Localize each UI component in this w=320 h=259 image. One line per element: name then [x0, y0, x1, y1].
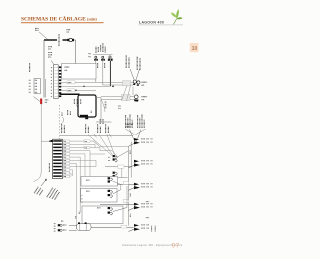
- P1 wire: [69, 224, 77, 226]
- bracket wire over breakers: [93, 54, 113, 56]
- control module U1 black rounded box: [78, 95, 96, 119]
- page title: SCHEMAS DE CABLAGE (suite): [21, 14, 104, 23]
- battery positive bus left segment: [44, 39, 57, 41]
- gauge feed diagonal wires: [130, 69, 134, 80]
- diagonals to loads group 1: [130, 130, 135, 142]
- harness curve: [63, 117, 64, 123]
- relay enclosure E3: [82, 206, 127, 224]
- main cable down to labels: [34, 104, 42, 181]
- leader to module: [76, 105, 81, 112]
- G1 labels: [142, 81, 148, 83]
- bottom bus to loads: [91, 226, 134, 228]
- wire label box B: [67, 89, 75, 92]
- battery positive bus right segment: [63, 39, 68, 41]
- inline connector capsule: [77, 222, 92, 230]
- CB2 drop wire: [102, 61, 104, 85]
- J2 row labels: [29, 80, 31, 92]
- cable label block mid-left: [48, 52, 52, 54]
- load 1 labels: [141, 138, 145, 140]
- left connector block J2: [34, 79, 41, 94]
- link wire G1 G2: [132, 87, 134, 96]
- CB3 drop wire thick: [109, 61, 111, 87]
- left margin cable label: [29, 63, 31, 72]
- junction dot: [112, 86, 114, 88]
- riser tick label: [129, 151, 131, 155]
- right label column mid bottom: [146, 201, 149, 203]
- relay enclosure E2: [81, 189, 121, 203]
- FP1 output label tags: [63, 140, 69, 178]
- wire to gauges upper pair: [96, 81, 133, 83]
- wire bottom of K area: [100, 177, 128, 179]
- gauge wire label box upper: [123, 81, 131, 86]
- breaker side labels: [89, 53, 91, 55]
- labels below module: [99, 119, 101, 124]
- wire K1 row: [105, 166, 131, 168]
- wire crossing slashes: [94, 134, 97, 138]
- load 5 labels: [141, 224, 145, 226]
- main fuse F1: [67, 38, 74, 41]
- load 2 labels: [141, 160, 145, 162]
- load 3 labels: [141, 183, 145, 185]
- fan-out wires from fuse panel: [70, 141, 129, 229]
- spec text block: [125, 115, 127, 128]
- leader V under spec block: [126, 129, 135, 135]
- breaker labels: [95, 46, 97, 53]
- P2 wire: [69, 229, 77, 231]
- gauge wire label box lower: [122, 95, 131, 101]
- gauge feed labels: [125, 55, 127, 68]
- labels above distribution wire: [61, 123, 63, 133]
- load 4 labels: [141, 203, 145, 205]
- crossover diagonal wires: [122, 86, 128, 101]
- label above capsule: [75, 216, 77, 219]
- svg-text:97: 97: [172, 243, 180, 250]
- E3 left label: [78, 212, 80, 215]
- pump P2 terminal: [54, 229, 62, 232]
- charger device box: [62, 64, 97, 80]
- load arrows group 3: [128, 183, 140, 191]
- bus wire with pins right of module: [100, 98, 102, 123]
- breaker CB3: [108, 56, 113, 61]
- load arrows group 5: [128, 224, 140, 232]
- cable labels under negative bus: [67, 110, 69, 115]
- leader to connector J1: [51, 61, 55, 67]
- label near battery switch: [45, 99, 49, 101]
- CB1 drop wire: [95, 61, 97, 83]
- riser from K label box: [121, 167, 123, 178]
- wire label box K: [118, 165, 125, 168]
- right riser B: [130, 142, 132, 178]
- long distribution wire: [60, 135, 133, 137]
- load arrows group 1: [128, 138, 140, 146]
- leaf logo: [171, 9, 183, 24]
- bus gap label 300A: [58, 34, 60, 46]
- bottom right riser label: [129, 214, 131, 217]
- F1 value label 300A: [67, 29, 71, 31]
- P1 inline labels: [63, 224, 66, 226]
- fan wire label boxes: [84, 140, 90, 142]
- wire label box A: [67, 81, 75, 84]
- wire to gauges lower pair: [101, 96, 134, 98]
- leader diagonals to relay K1: [88, 135, 112, 156]
- P2 inline labels: [63, 229, 66, 231]
- K1 wire up right: [118, 151, 129, 157]
- battery switch red: [40, 99, 42, 105]
- relay K2 pads: [113, 172, 118, 177]
- load arrows group 4: [128, 203, 140, 211]
- bus label box: [121, 225, 127, 228]
- E2 out wire: [100, 203, 135, 205]
- dashed harness line: [59, 105, 61, 139]
- boat model logotype: LAGOON 400: [139, 21, 184, 26]
- load arrows group 2: [128, 160, 140, 168]
- wire J1 to charger bus A: [61, 81, 96, 83]
- G2 labels: [142, 96, 148, 98]
- leader to battery switch: [34, 97, 41, 102]
- drop wire labels: [97, 63, 99, 68]
- svg-text:SCHEMAS DE CÂBLAGE (suite): SCHEMAS DE CÂBLAGE (suite): [21, 14, 98, 22]
- relay K1: [113, 155, 118, 162]
- K1 side ticks: [108, 156, 110, 158]
- svg-text:10: 10: [192, 46, 198, 52]
- leader wire to battery bus: [39, 32, 48, 40]
- small label left of spec block: [118, 105, 121, 107]
- svg-text:LAGOON 400: LAGOON 400: [139, 21, 164, 25]
- E1 out wire: [118, 183, 135, 185]
- negative bus thick: [60, 93, 80, 95]
- junction dot: [49, 141, 50, 142]
- fuse panel FP1 ladder: [51, 139, 63, 178]
- gauge G1 double lamp: [133, 80, 140, 86]
- wire F1 to charger drop: [74, 40, 76, 64]
- diagonal at fan top right: [93, 140, 100, 147]
- breaker CB1: [94, 56, 98, 61]
- node label batteries: [35, 27, 39, 29]
- harness label: [61, 113, 63, 117]
- FP1 vertical label: [48, 163, 50, 172]
- breaker CB2: [101, 56, 105, 61]
- connector J1 tall pin header: [51, 65, 61, 99]
- gauge G2 lamp: [134, 95, 139, 102]
- wire J1 to bus B: [61, 85, 110, 87]
- junction dot: [83, 86, 84, 87]
- inter box risers: [120, 185, 122, 190]
- relay enclosure E1: [81, 177, 121, 187]
- FP1 feed wire: [41, 140, 50, 142]
- E2 left pin labels: [81, 196, 84, 202]
- slanted harness labels bottom left: [34, 187, 38, 193]
- module pin ticks: [105, 103, 107, 108]
- wire module bottom: [96, 121, 112, 123]
- pump P1 terminal: [54, 224, 62, 227]
- chapter tab 10: [190, 43, 199, 52]
- junction dot: [75, 90, 76, 91]
- wire J1 to bus C: [61, 89, 96, 91]
- wire battery bus down left: [43, 40, 45, 98]
- cable label above bus: [48, 46, 52, 48]
- right drop bus riser: [127, 146, 129, 225]
- arrow leader to fuse panel: [41, 180, 46, 186]
- wire pair second vertical: [44, 79, 46, 98]
